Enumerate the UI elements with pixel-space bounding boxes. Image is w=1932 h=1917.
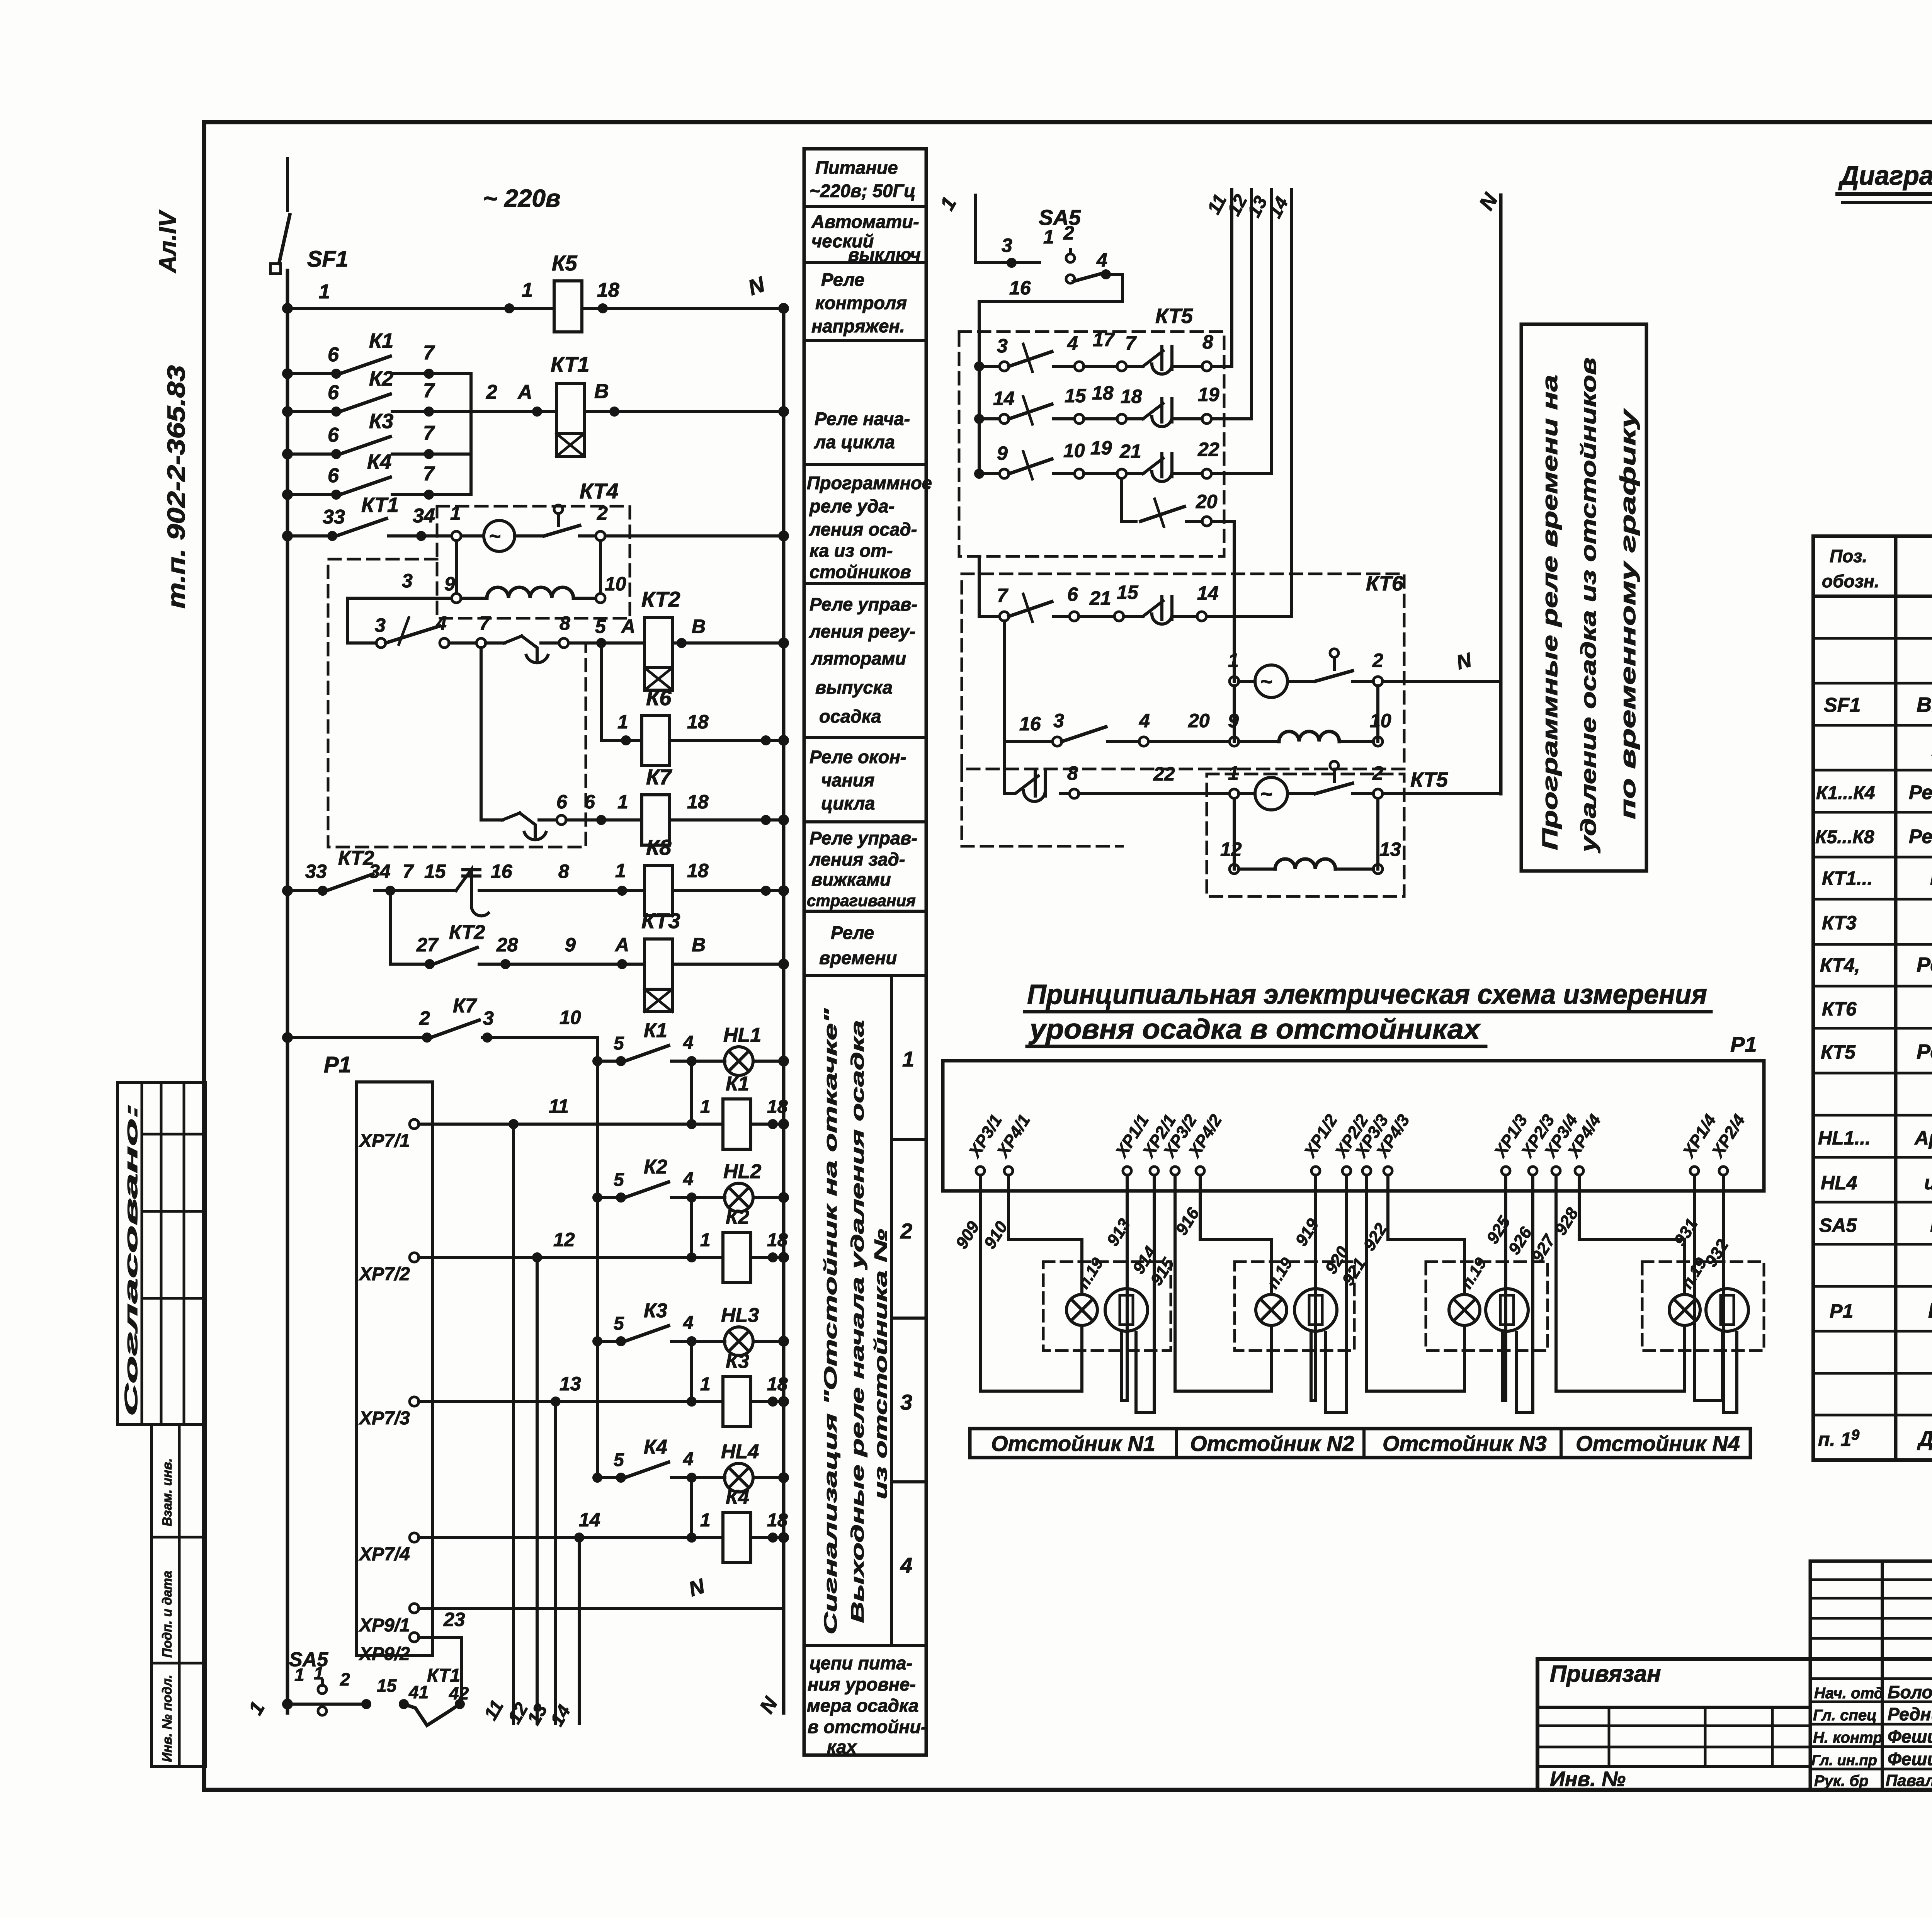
svg-text:ках: ках	[827, 1737, 857, 1757]
svg-text:5: 5	[614, 1033, 624, 1054]
svg-text:Программное: Программное	[807, 473, 932, 493]
wire K5 row	[287, 307, 554, 310]
svg-text:HL4: HL4	[721, 1441, 759, 1463]
LEFTCOL	[804, 149, 932, 1757]
svg-text:Отстойник N2: Отстойник N2	[1190, 1431, 1354, 1456]
outer dashed box	[328, 559, 586, 847]
svg-text:8: 8	[1202, 331, 1213, 353]
svg-text:ла цикла: ла цикла	[814, 432, 895, 452]
svg-text:20: 20	[1196, 491, 1218, 512]
svg-text:К1...К4: К1...К4	[1816, 783, 1875, 803]
svg-text:4: 4	[683, 1313, 694, 1333]
svg-text:К7: К7	[453, 995, 477, 1017]
svg-text:17: 17	[1093, 329, 1115, 350]
svg-text:Фешин: Фешин	[1888, 1726, 1932, 1747]
terminal XP4/3	[1372, 1111, 1413, 1175]
release contact KT5b	[1330, 761, 1338, 770]
svg-text:16: 16	[1009, 277, 1031, 299]
svg-text:SF1: SF1	[1824, 694, 1861, 716]
time relay KT6 dashed box	[962, 574, 1404, 769]
svg-text:2: 2	[419, 1007, 430, 1029]
svg-text:Переключатель УП5311 И 3: Переключатель УП5311 И 3	[1930, 1213, 1932, 1237]
svg-text:4: 4	[1096, 249, 1107, 271]
terminal XP4/4	[1563, 1111, 1605, 1175]
stamp top line	[1537, 1657, 1932, 1661]
svg-text:ХР9/1: ХР9/1	[358, 1615, 410, 1636]
svg-text:HL3: HL3	[721, 1304, 759, 1327]
svg-text:К8: К8	[646, 835, 672, 859]
relay coil K2	[690, 1197, 693, 1257]
svg-text:~ 220в: ~ 220в	[483, 184, 561, 212]
svg-text:3: 3	[483, 1007, 494, 1029]
contact KT2 c row KT3	[390, 963, 425, 966]
svg-text:мера осадка: мера осадка	[807, 1695, 918, 1716]
wire 13	[554, 1402, 557, 1723]
parts table grid	[1813, 536, 1932, 1460]
svg-text:ления регу-: ления регу-	[809, 621, 915, 641]
svg-text:3: 3	[375, 614, 386, 636]
svg-text:напряжен.: напряжен.	[811, 316, 905, 336]
svg-text:уровня осадка в отстойниках: уровня осадка в отстойниках	[1029, 1014, 1481, 1045]
svg-text:К3: К3	[644, 1300, 667, 1322]
relay coil K3	[690, 1341, 693, 1402]
lamp unit3	[1449, 1294, 1480, 1325]
terminal XP4/2	[1184, 1111, 1226, 1175]
tank label boxes	[970, 1429, 1750, 1458]
svg-text:3: 3	[997, 335, 1008, 357]
svg-text:5: 5	[614, 1170, 624, 1190]
wire KT4 inner top row	[437, 534, 484, 538]
svg-text:18: 18	[1092, 382, 1114, 404]
svg-text:Ал.IV: Ал.IV	[155, 209, 181, 274]
svg-text:Привязан: Привязан	[1550, 1661, 1661, 1687]
svg-text:10: 10	[605, 573, 626, 595]
svg-text:19: 19	[1198, 384, 1219, 405]
svg-text:Рук. бр: Рук. бр	[1814, 1772, 1869, 1789]
contact KT2 b row K8	[287, 889, 323, 892]
svg-text:33: 33	[323, 506, 345, 528]
wire 14	[578, 1538, 581, 1723]
svg-text:33: 33	[305, 861, 327, 882]
connector XP7/2	[410, 1253, 419, 1262]
lamp HL4	[724, 1463, 753, 1492]
svg-text:КТ5: КТ5	[1155, 304, 1193, 328]
wire 913	[1122, 1175, 1127, 1401]
terminal XP3/4	[1540, 1111, 1582, 1175]
svg-text:К3: К3	[726, 1350, 749, 1373]
terminal XP2/1	[1138, 1111, 1180, 1175]
svg-text:Выходные реле начала удаления: Выходные реле начала удаления осадка	[847, 1020, 867, 1623]
svg-text:1: 1	[617, 711, 628, 733]
terminal XP4/1	[993, 1111, 1034, 1175]
svg-text:Р1: Р1	[1830, 1300, 1853, 1322]
svg-text:18: 18	[767, 1510, 788, 1531]
svg-text:8: 8	[558, 861, 569, 882]
svg-text:22: 22	[1153, 763, 1175, 785]
row lines	[804, 205, 926, 208]
svg-text:15: 15	[1117, 582, 1139, 603]
svg-text:18: 18	[687, 791, 709, 813]
wire 927	[1556, 1175, 1685, 1391]
svg-text:цепи пита-: цепи пита-	[810, 1653, 912, 1673]
terminal XP1/1	[1111, 1111, 1153, 1175]
svg-text:Отстойник N3: Отстойник N3	[1383, 1431, 1547, 1456]
svg-text:Реле времени ВС-10-36 22: Реле времени ВС-10-36 220в	[1917, 953, 1932, 976]
lamp HL1	[724, 1047, 753, 1075]
svg-text:К4: К4	[367, 450, 391, 473]
svg-text:Отстойник N4: Отстойник N4	[1576, 1431, 1740, 1456]
svg-text:7: 7	[423, 342, 435, 364]
wire 909	[980, 1175, 1082, 1391]
sensor unit3	[1486, 1289, 1528, 1331]
MIDCKT	[936, 189, 1646, 896]
connector XP7/4	[410, 1533, 419, 1542]
svg-text:Р1: Р1	[324, 1052, 351, 1077]
svg-text:4: 4	[683, 1032, 694, 1053]
connector XP7/1	[410, 1119, 419, 1129]
svg-text:КТ4: КТ4	[580, 479, 618, 503]
svg-text:Реле ПЭ21-5у3 220в, ТУ16-523.: Реле ПЭ21-5у3 220в, ТУ16-523.457-74	[1909, 825, 1932, 847]
svg-text:Павалочкин: Павалочкин	[1886, 1771, 1932, 1789]
svg-text:КТ5: КТ5	[1410, 768, 1448, 791]
svg-text:~: ~	[1260, 782, 1273, 806]
svg-text:34: 34	[413, 505, 435, 527]
svg-text:18: 18	[767, 1374, 788, 1395]
contact K1 lamp row	[597, 1060, 616, 1063]
svg-text:КТ1: КТ1	[551, 352, 589, 376]
svg-text:В: В	[692, 934, 706, 956]
svg-text:16: 16	[1019, 713, 1041, 735]
svg-text:15: 15	[377, 1675, 397, 1696]
svg-text:4: 4	[683, 1169, 694, 1189]
svg-text:5: 5	[614, 1450, 624, 1470]
contact KT5 row2	[979, 417, 1000, 420]
svg-text:~: ~	[1260, 670, 1273, 693]
svg-text:19: 19	[1090, 437, 1112, 459]
svg-text:Реле: Реле	[831, 922, 874, 943]
terminal XP2/2	[1331, 1111, 1372, 1175]
svg-text:1: 1	[319, 281, 330, 303]
svg-text:6: 6	[556, 791, 568, 813]
motor KT6	[1230, 677, 1239, 686]
svg-text:8: 8	[560, 612, 570, 634]
svg-text:Арматура сигнальная ЛС-53 ~2: Арматура сигнальная ЛС-53 ~220в	[1914, 1127, 1932, 1149]
svg-text:Болотов: Болотов	[1888, 1682, 1932, 1702]
svg-text:времени: времени	[819, 947, 897, 968]
svg-text:22: 22	[1197, 439, 1219, 460]
svg-text:А: А	[621, 616, 635, 637]
wire lamp bus	[596, 1038, 599, 1478]
svg-text:КТ3: КТ3	[641, 908, 680, 933]
svg-text:1: 1	[615, 860, 626, 881]
wire KT2 row	[348, 641, 376, 645]
release contact KT6	[1330, 649, 1338, 657]
time relay KT5b dashed box	[1207, 774, 1404, 896]
svg-text:КТ1: КТ1	[361, 493, 399, 517]
svg-text:осадка: осадка	[819, 706, 881, 726]
program relay note box	[1521, 324, 1646, 871]
svg-text:2: 2	[340, 1669, 350, 1689]
svg-text:Редникин: Редникин	[1888, 1704, 1932, 1724]
svg-text:6: 6	[328, 464, 339, 487]
svg-text:1: 1	[902, 1047, 914, 1071]
svg-text:КТ2: КТ2	[449, 921, 485, 944]
svg-text:К7: К7	[646, 765, 672, 789]
svg-text:Реле окон-: Реле окон-	[810, 747, 906, 767]
svg-text:2: 2	[1063, 222, 1074, 244]
sensor unit2	[1294, 1289, 1337, 1331]
svg-text:7: 7	[423, 463, 435, 485]
time relay coil KT1	[556, 383, 584, 434]
svg-text:КТ1...: КТ1...	[1822, 867, 1872, 889]
LEFTCKT	[244, 158, 787, 1730]
svg-text:обозн.: обозн.	[1822, 571, 1879, 591]
contact KT5 row4	[1120, 478, 1123, 521]
wire left rail	[286, 270, 289, 1713]
svg-text:К1: К1	[644, 1019, 667, 1042]
contact KT5 row3	[979, 472, 1000, 475]
connector XP9/1	[410, 1604, 419, 1613]
svg-text:16: 16	[491, 861, 513, 882]
relay coil K8	[645, 866, 672, 916]
wire N rail mid	[1499, 195, 1503, 794]
inductor KT5b row	[1233, 798, 1236, 869]
contact KT1	[287, 534, 332, 538]
time relay KT4 dashed box	[437, 506, 630, 618]
svg-text:выключ: выключ	[848, 244, 921, 265]
relay coil K1	[690, 1061, 693, 1124]
wire 932	[1723, 1175, 1737, 1412]
svg-text:1: 1	[700, 1230, 711, 1250]
svg-text:Реле управ-: Реле управ-	[810, 828, 917, 848]
svg-text:18: 18	[767, 1097, 788, 1117]
svg-text:В: В	[692, 616, 706, 637]
sensor unit4	[1706, 1289, 1748, 1331]
svg-text:т.п. 902-2-365.83: т.п. 902-2-365.83	[162, 365, 190, 609]
svg-text:20: 20	[1188, 710, 1210, 731]
svg-text:ления зад-: ления зад-	[809, 849, 905, 869]
svg-text:Фешин: Фешин	[1888, 1749, 1932, 1769]
sensor unit1	[1105, 1289, 1148, 1331]
svg-text:2: 2	[1372, 650, 1383, 671]
svg-text:Р1: Р1	[1730, 1032, 1757, 1056]
svg-text:18: 18	[1121, 386, 1142, 407]
wire 928	[1579, 1175, 1685, 1294]
svg-text:1: 1	[700, 1374, 711, 1395]
svg-text:27: 27	[416, 934, 439, 956]
svg-text:Гл. ин.пр: Гл. ин.пр	[1811, 1752, 1877, 1769]
svg-text:ления осад-: ления осад-	[809, 519, 917, 539]
svg-text:выпуска: выпуска	[815, 677, 893, 697]
svg-text:по временному графику: по временному графику	[1616, 408, 1640, 819]
svg-text:6: 6	[584, 791, 595, 813]
wire 921	[1367, 1175, 1464, 1391]
wire KT6 coil row	[1233, 686, 1236, 742]
svg-text:К2: К2	[644, 1156, 667, 1178]
svg-text:6: 6	[328, 344, 339, 366]
lamp HL2	[724, 1183, 753, 1212]
svg-text:11: 11	[549, 1095, 569, 1117]
contact K2 lamp row	[597, 1196, 616, 1199]
wire 14 bundle	[1290, 189, 1293, 616]
wire contact bus	[469, 374, 473, 495]
svg-text:1: 1	[1228, 650, 1239, 671]
svg-text:из отстойника №: из отстойника №	[871, 1229, 891, 1499]
sensor unit 4 dashed box	[1642, 1262, 1764, 1351]
svg-text:Питание: Питание	[815, 157, 898, 178]
svg-text:15: 15	[1065, 385, 1087, 407]
svg-text:А: А	[517, 381, 532, 403]
svg-text:4: 4	[900, 1553, 912, 1577]
terminal XP3/3	[1351, 1111, 1392, 1175]
svg-text:Реле времени ВС-10-67, 220: Реле времени ВС-10-67, 220	[1917, 1040, 1932, 1063]
svg-text:~: ~	[489, 525, 501, 548]
svg-text:4: 4	[1139, 710, 1150, 731]
svg-text:страгивания: страгивания	[807, 891, 916, 910]
terminal XP3/1	[964, 1111, 1006, 1175]
relay coil K4	[690, 1478, 693, 1538]
sensor unit 1 dashed box	[1043, 1262, 1171, 1351]
signature grid	[1810, 1560, 1932, 1563]
svg-text:Подп. и дата: Подп. и дата	[160, 1571, 175, 1658]
svg-text:12: 12	[553, 1229, 575, 1250]
terminal XP3/2	[1159, 1111, 1201, 1175]
svg-text:5: 5	[614, 1313, 624, 1334]
LAMPROWS	[284, 1019, 788, 1725]
svg-text:10: 10	[1370, 710, 1391, 731]
svg-text:SА5: SА5	[1039, 205, 1081, 230]
RIGHTTOP	[1837, 160, 1932, 501]
svg-text:Диаграмма замыкания контактов: Диаграмма замыкания контактов переключат…	[1838, 160, 1932, 191]
svg-text:7: 7	[423, 379, 435, 402]
connector XP9/2	[410, 1633, 419, 1642]
svg-text:Реле управ-: Реле управ-	[810, 594, 917, 614]
svg-text:3: 3	[1002, 235, 1012, 256]
contact K3	[287, 452, 336, 456]
svg-text:В: В	[594, 380, 609, 403]
svg-text:HL4: HL4	[1821, 1172, 1857, 1194]
description column outer box	[804, 149, 926, 1755]
svg-text:КТ5: КТ5	[1821, 1041, 1856, 1063]
svg-text:1: 1	[1228, 762, 1239, 784]
svg-text:КТ3: КТ3	[1822, 912, 1857, 934]
svg-text:6: 6	[328, 424, 339, 446]
svg-text:2: 2	[597, 502, 608, 524]
svg-text:ния уровне-: ния уровне-	[808, 1674, 916, 1694]
terminal XP1/4	[1679, 1111, 1720, 1175]
contact K7 b row	[287, 1036, 422, 1039]
svg-text:Принципиальная электрическая с: Принципиальная электрическая схема измер…	[1027, 979, 1707, 1010]
svg-text:4: 4	[1067, 332, 1078, 354]
STAMP	[1537, 1561, 1932, 1854]
svg-text:Реле РВП72-3221-00У4-220/50: Реле РВП72-3221-00У4-220/50	[1930, 866, 1932, 890]
contact K1	[287, 372, 336, 375]
svg-text:К5...К8: К5...К8	[1815, 827, 1874, 847]
svg-text:вижками: вижками	[811, 869, 891, 890]
wire 925	[1502, 1175, 1506, 1401]
svg-text:5: 5	[595, 616, 606, 637]
contact K2	[287, 410, 336, 413]
svg-text:15: 15	[424, 861, 446, 882]
svg-text:3: 3	[1053, 710, 1064, 731]
svg-text:6: 6	[1067, 583, 1078, 605]
wire K8 to KT3	[389, 891, 392, 964]
connector XP7/3	[410, 1397, 419, 1406]
svg-text:3: 3	[402, 570, 413, 592]
svg-text:HL1...: HL1...	[1818, 1127, 1871, 1149]
svg-text:28: 28	[496, 934, 518, 956]
svg-text:9: 9	[1228, 710, 1239, 731]
svg-text:9: 9	[565, 934, 576, 956]
svg-text:14: 14	[1197, 582, 1219, 604]
release contact K7 row	[481, 818, 502, 822]
contact KT5b row	[1004, 771, 1045, 801]
svg-text:HL1: HL1	[723, 1024, 761, 1046]
svg-text:Датчик СУ 101 1Е2 850. 101-: Датчик СУ 101 1Е2 850. 101- ОСП	[1917, 1427, 1932, 1451]
inductor KT6	[1239, 740, 1279, 743]
svg-text:1: 1	[314, 1663, 324, 1683]
svg-text:реле уда-: реле уда-	[809, 496, 895, 516]
inductor KT4	[461, 597, 487, 600]
wire KT1 coil row	[471, 410, 556, 413]
svg-text:18: 18	[597, 279, 619, 301]
svg-text:14: 14	[579, 1509, 600, 1531]
svg-text:1: 1	[617, 791, 628, 813]
release contact KT4	[554, 505, 563, 514]
svg-text:Выключатель автоматический: Выключатель автоматический	[1917, 693, 1932, 716]
svg-text:Согласовано:: Согласовано:	[121, 1103, 141, 1416]
svg-text:9: 9	[444, 573, 455, 595]
motor KT4	[484, 520, 515, 551]
svg-text:4: 4	[683, 1449, 694, 1470]
svg-text:стойников: стойников	[810, 561, 911, 582]
svg-text:контроля: контроля	[815, 293, 907, 313]
svg-text:6: 6	[328, 381, 339, 404]
svg-text:К4: К4	[644, 1436, 667, 1458]
breaker SF1	[286, 158, 289, 211]
svg-text:Инв. №: Инв. №	[1550, 1767, 1626, 1791]
wire KT5 feed	[978, 332, 981, 474]
svg-text:18: 18	[687, 860, 709, 881]
wire to K6	[600, 643, 603, 740]
svg-text:2: 2	[1372, 762, 1383, 784]
svg-text:КТ6: КТ6	[1366, 572, 1404, 595]
contact KT5 row1	[979, 365, 1000, 368]
lamp HL3	[724, 1327, 753, 1356]
svg-text:А: А	[614, 934, 629, 956]
wire 922	[1388, 1175, 1464, 1294]
wire 931	[1694, 1175, 1723, 1401]
svg-text:12: 12	[1220, 839, 1242, 860]
time relay coil KT2	[645, 617, 672, 668]
terminal XP1/2	[1300, 1111, 1341, 1175]
svg-text:34: 34	[369, 861, 391, 882]
svg-text:Взам. инв.: Взам. инв.	[160, 1458, 175, 1526]
contact K4	[287, 493, 336, 496]
svg-text:21: 21	[1089, 587, 1111, 609]
svg-text:К2: К2	[369, 367, 393, 390]
lamp unit4	[1669, 1294, 1700, 1325]
svg-text:42: 42	[449, 1683, 469, 1703]
svg-text:К1: К1	[726, 1073, 749, 1095]
svg-text:К5: К5	[552, 251, 577, 275]
svg-text:Реле: Реле	[821, 269, 864, 290]
wire 919	[1311, 1175, 1316, 1401]
drawing border frame	[204, 122, 1932, 1790]
delay contact KT2 vertical	[456, 869, 488, 916]
svg-text:ХР7/1: ХР7/1	[358, 1131, 410, 1151]
svg-text:1: 1	[700, 1510, 711, 1531]
